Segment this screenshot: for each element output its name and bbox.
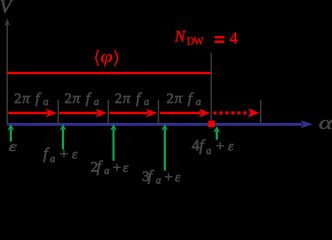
red arrow 3 bbox=[110, 109, 158, 117]
green arrow 1 (epsilon) bbox=[8, 124, 15, 141]
svg-text:a: a bbox=[43, 97, 48, 108]
label f_a + epsilon bbox=[43, 146, 78, 165]
svg-text:ε: ε bbox=[175, 171, 181, 184]
svg-text:a: a bbox=[144, 97, 149, 108]
svg-text:a: a bbox=[50, 154, 55, 165]
svg-text:π: π bbox=[175, 91, 183, 107]
svg-text:ε: ε bbox=[228, 140, 234, 155]
svg-text:π: π bbox=[22, 91, 30, 107]
svg-text:2: 2 bbox=[115, 91, 123, 107]
svg-text:ε: ε bbox=[72, 148, 78, 163]
svg-text:ε: ε bbox=[123, 161, 129, 176]
small ticks bbox=[58, 100, 261, 124]
svg-text:a: a bbox=[206, 146, 211, 157]
svg-text:α: α bbox=[319, 112, 332, 133]
red square marker at 4 f_a bbox=[208, 121, 215, 128]
red arrow 2 bbox=[59, 109, 107, 117]
svg-text:N: N bbox=[174, 28, 187, 45]
svg-text:2: 2 bbox=[64, 91, 72, 107]
axis V (vertical) bbox=[4, 19, 10, 125]
red arrow 4 bbox=[160, 109, 210, 117]
svg-text:φ: φ bbox=[100, 47, 112, 66]
label 3 f_a + epsilon bbox=[142, 168, 181, 186]
green arrow 4 bbox=[162, 124, 169, 170]
svg-text:+: + bbox=[60, 147, 68, 163]
label 2 pi f_a (2) bbox=[64, 91, 99, 108]
green arrow 3 bbox=[110, 124, 117, 161]
red dashed arrow bbox=[213, 108, 259, 117]
red arrow 1 (2 pi f_a) bbox=[8, 109, 57, 117]
svg-text:+: + bbox=[216, 139, 224, 155]
svg-text:π: π bbox=[73, 91, 81, 107]
svg-text:ε: ε bbox=[9, 138, 17, 154]
green arrow 5 bbox=[214, 126, 221, 140]
svg-text:2: 2 bbox=[14, 91, 22, 107]
tall tick at 4 f_a bbox=[210, 53, 212, 124]
svg-text:π: π bbox=[123, 91, 131, 107]
svg-text:+: + bbox=[113, 160, 121, 176]
label 2 pi f_a (4) bbox=[166, 91, 201, 108]
svg-text:a: a bbox=[196, 97, 201, 108]
svg-text:2: 2 bbox=[166, 91, 174, 107]
svg-text:a: a bbox=[156, 176, 161, 184]
svg-text:a: a bbox=[104, 166, 109, 177]
line <phi> (red, upper) bbox=[7, 72, 211, 74]
svg-text:a: a bbox=[94, 97, 99, 108]
label <phi> : angle brackets bbox=[96, 50, 118, 66]
svg-text:+: + bbox=[164, 170, 172, 184]
label 2 pi f_a (1) bbox=[14, 91, 49, 108]
svg-text:DW: DW bbox=[187, 36, 204, 47]
svg-text:4: 4 bbox=[229, 29, 238, 48]
label 2 pi f_a (3) bbox=[115, 91, 150, 108]
axis alpha (horizontal, blue) bbox=[7, 120, 313, 128]
green arrow 2 bbox=[60, 124, 67, 149]
label 2 f_a + epsilon bbox=[91, 159, 129, 178]
label 4 f_a + epsilon bbox=[192, 138, 234, 157]
label N_DW = 4 (red) bbox=[174, 28, 239, 47]
